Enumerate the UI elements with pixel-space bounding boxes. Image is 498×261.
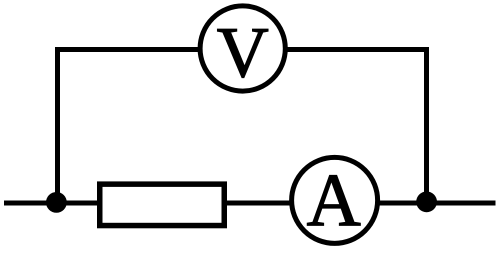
node left junction xyxy=(46,192,67,213)
wire top-right segment xyxy=(286,47,429,52)
node right junction xyxy=(416,191,437,212)
wire bottom-left segment xyxy=(4,201,100,206)
voltmeter V xyxy=(200,6,285,93)
wire right vertical xyxy=(424,47,429,203)
wire resistor-to-ammeter segment xyxy=(225,201,292,206)
ammeter A xyxy=(292,157,378,243)
svg-text:V: V xyxy=(217,12,269,92)
wire top-left segment xyxy=(55,47,200,52)
resistor R xyxy=(100,184,225,225)
svg-text:A: A xyxy=(307,159,361,242)
wire bottom-right segment xyxy=(378,201,496,206)
wire left vertical xyxy=(55,47,60,203)
